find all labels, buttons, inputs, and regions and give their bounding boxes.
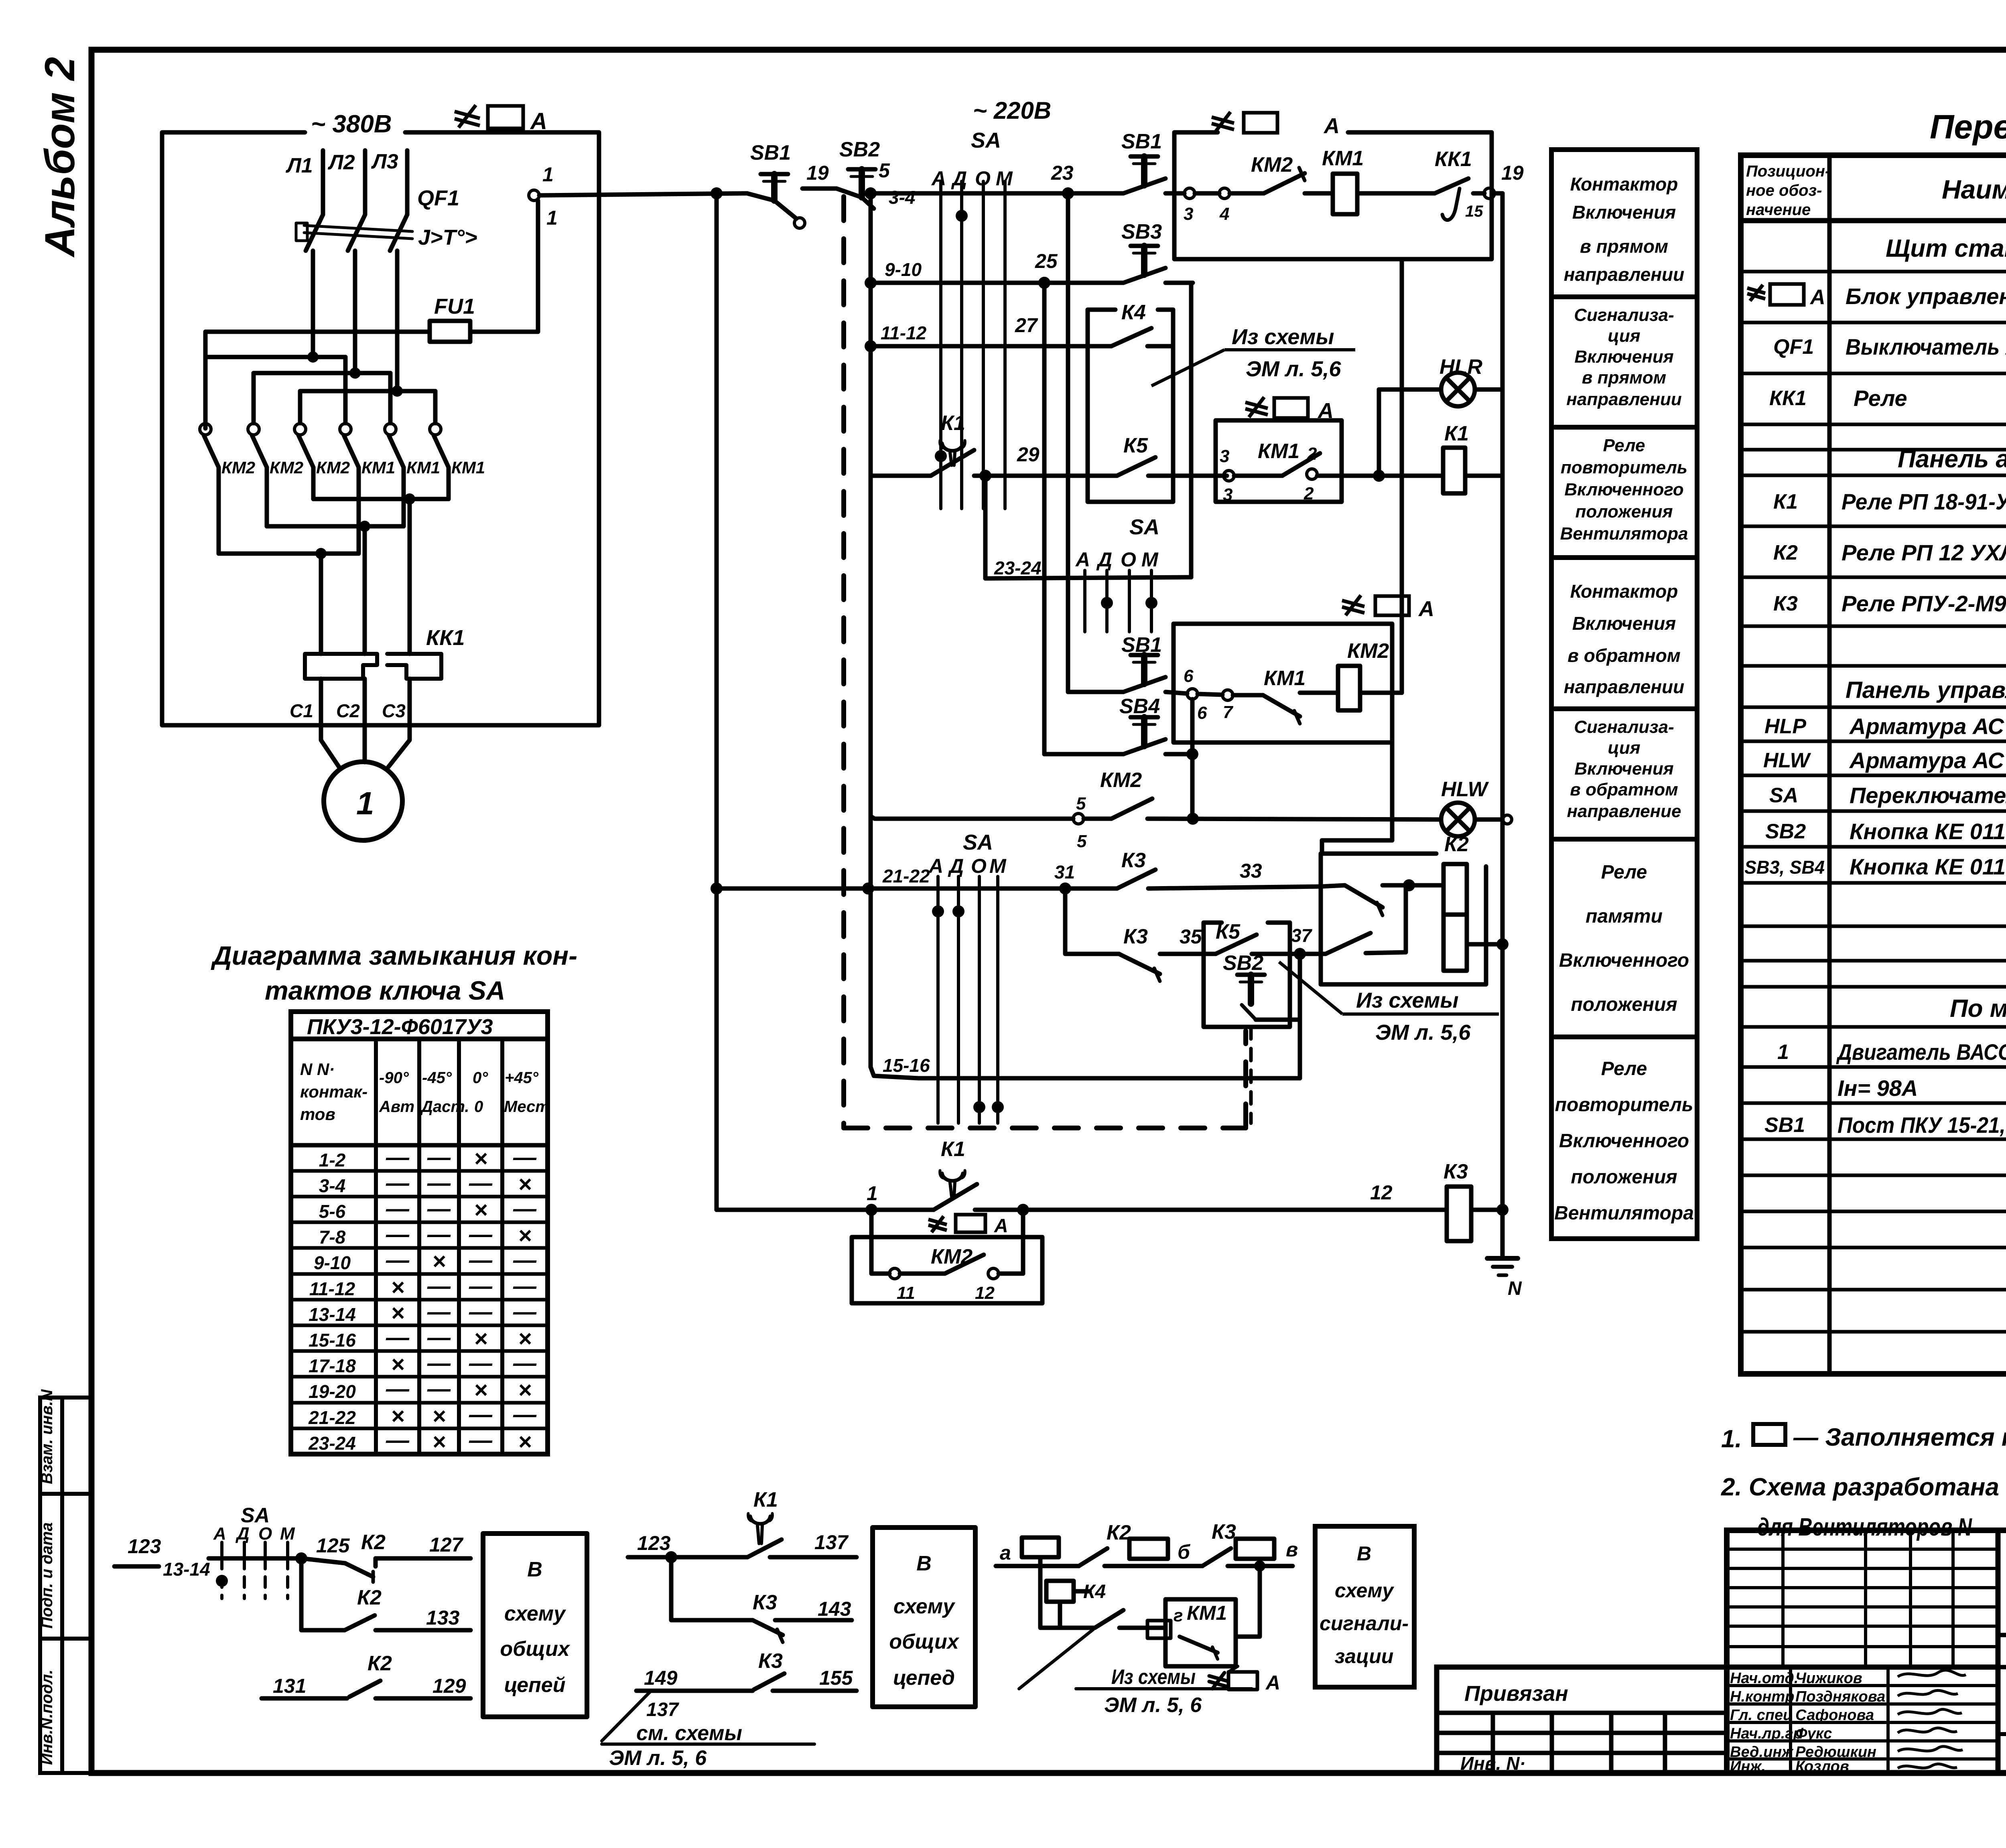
contact K5 (NO row 35) xyxy=(1216,935,1326,954)
svg-text:SВ2: SВ2 xyxy=(1223,951,1263,975)
svg-text:контак-: контак- xyxy=(300,1082,367,1101)
svg-text:К5: К5 xyxy=(1123,434,1148,457)
svg-text:123: 123 xyxy=(637,1532,671,1554)
svg-text:Нач.лр.гр: Нач.лр.гр xyxy=(1730,1725,1803,1742)
svg-text:Кнопка КЕ 011 У3, исп. 4.: Кнопка КЕ 011 У3, исп. 4. xyxy=(1850,854,2006,879)
svg-text:Реле РП 18-91-УХЛ4, И~220В,В.В: Реле РП 18-91-УХЛ4, И~220В,В.В.0,4...1,0… xyxy=(1842,489,2006,514)
svg-text:N N·: N N· xyxy=(300,1060,335,1079)
terminal rect a xyxy=(1022,1538,1059,1557)
svg-text:Инв. N·: Инв. N· xyxy=(1460,1753,1526,1774)
svg-text:QF1: QF1 xyxy=(417,186,459,210)
relay coil KM2 (block2) xyxy=(1338,666,1360,710)
wire phase L2 xyxy=(363,150,367,215)
contactor pole KM2 (2) xyxy=(248,424,267,526)
svg-text:Инж.: Инж. xyxy=(1730,1758,1766,1775)
relay coil K1 xyxy=(1443,448,1465,493)
svg-text:—: — xyxy=(386,1170,410,1196)
text В схему сигнализации xyxy=(1320,1542,1409,1667)
svg-text:Iн= 98А: Iн= 98А xyxy=(1837,1075,1918,1101)
svg-text:27: 27 xyxy=(1015,314,1038,337)
block designation A (frag3) xyxy=(1209,1672,1257,1690)
svg-text:Реле: Реле xyxy=(1601,1058,1647,1079)
signature rows lower part xyxy=(1727,1667,1998,1773)
svg-text:К2: К2 xyxy=(1773,541,1798,564)
svg-text:КМ1: КМ1 xyxy=(406,458,440,477)
svg-text:N: N xyxy=(1508,1278,1522,1299)
contact K1 (NO with fork, frag2) xyxy=(747,1513,782,1557)
svg-text:А: А xyxy=(1317,399,1334,423)
svg-text:Сафонова: Сафонова xyxy=(1795,1707,1874,1724)
svg-text:Гл. спец: Гл. спец xyxy=(1730,1707,1793,1724)
wire row 23-24 xyxy=(985,577,1191,578)
svg-text:В: В xyxy=(916,1552,932,1575)
svg-text:Из схемы: Из схемы xyxy=(1232,325,1334,349)
svg-text:31: 31 xyxy=(1054,862,1075,882)
svg-text:SВ1: SВ1 xyxy=(1764,1114,1805,1137)
svg-text:КМ1: КМ1 xyxy=(1322,147,1364,170)
contact K3 (frag3) xyxy=(1202,1548,1231,1566)
leader Из схемы (frag3) xyxy=(1019,1629,1252,1689)
svg-text:КК1: КК1 xyxy=(426,626,465,650)
svg-text:×: × xyxy=(518,1326,532,1352)
svg-text:Перечень элементов: Перечень элементов xyxy=(1930,108,2006,146)
svg-text:SВ2: SВ2 xyxy=(839,138,880,161)
thermal relay KK1 heaters xyxy=(305,654,441,679)
motor 1 circle xyxy=(324,762,402,840)
svg-text:Панель автоматики: Панель автоматики xyxy=(1898,445,2006,473)
block box KM1 (middle) xyxy=(1216,420,1342,502)
vertical from block1 bottom to row6 coil KM2 xyxy=(1400,259,1404,693)
svg-text:4: 4 xyxy=(1219,204,1229,224)
junction dots rail xyxy=(711,187,1074,199)
wire 123 row xyxy=(114,1558,345,1566)
svg-text:КК1: КК1 xyxy=(1769,387,1807,410)
text В схему общих цепей (2) xyxy=(889,1552,959,1690)
label Iz skhemy EM l.5,6 (upper note) xyxy=(1232,325,1341,381)
svg-text:5-6: 5-6 xyxy=(319,1201,346,1222)
svg-text:Позднякова: Позднякова xyxy=(1795,1688,1885,1705)
wire row 21-22 xyxy=(717,885,1345,889)
svg-text:Вентилятора: Вентилятора xyxy=(1554,1203,1694,1224)
wire drop 31 to K3-35 row xyxy=(1065,889,1119,954)
svg-text:ПКУ3-12-Ф6017У3: ПКУ3-12-Ф6017У3 xyxy=(307,1015,493,1039)
circuit breaker QF1 xyxy=(296,215,412,251)
svg-text:М: М xyxy=(996,167,1013,190)
svg-text:17-18: 17-18 xyxy=(309,1355,356,1376)
svg-text:15: 15 xyxy=(1465,203,1483,220)
svg-text:А: А xyxy=(1075,548,1090,571)
svg-text:повторитель: повторитель xyxy=(1561,458,1687,477)
svg-text:×: × xyxy=(391,1274,404,1300)
svg-text:—: — xyxy=(427,1376,451,1402)
svg-text:33: 33 xyxy=(1240,860,1262,882)
svg-text:Подп. и дата: Подп. и дата xyxy=(38,1522,56,1629)
svg-text:23: 23 xyxy=(1051,162,1074,184)
svg-text:Фукс: Фукс xyxy=(1795,1725,1832,1742)
svg-text:К3: К3 xyxy=(1121,849,1146,872)
contact K3 (NC frag2) xyxy=(753,1620,852,1642)
svg-text:—: — xyxy=(469,1247,493,1273)
wire fuse feed xyxy=(205,201,538,428)
svg-text:3: 3 xyxy=(1220,446,1229,466)
svg-text:19-20: 19-20 xyxy=(309,1381,356,1402)
svg-text:×: × xyxy=(391,1403,404,1429)
leader line см. схемы xyxy=(602,1692,814,1744)
svg-text:-90°: -90° xyxy=(379,1069,409,1087)
svg-text:Л2: Л2 xyxy=(327,151,355,174)
svg-text:SА: SА xyxy=(963,830,993,854)
svg-text:Включенного: Включенного xyxy=(1559,1130,1689,1152)
svg-text:Щит станций управления: Щит станций управления xyxy=(1886,235,2006,262)
svg-text:С2: С2 xyxy=(336,700,360,721)
svg-text:Сигнализа-: Сигнализа- xyxy=(1574,717,1674,737)
block designation A (above block2) xyxy=(1342,595,1409,615)
SA table row lines xyxy=(291,1145,548,1428)
svg-text:11-12: 11-12 xyxy=(881,323,927,343)
function text: Реле памяти включенного положения xyxy=(1559,862,1689,1015)
svg-text:×: × xyxy=(474,1326,487,1352)
wire row 29 (K1 relay row) xyxy=(871,474,1502,478)
SA table type header box xyxy=(291,1012,548,1039)
svg-text:15-16: 15-16 xyxy=(309,1330,356,1351)
svg-text:~ 380В: ~ 380В xyxy=(311,110,392,138)
contactor pole KM1 (3) xyxy=(430,424,449,499)
svg-text:—: — xyxy=(513,1144,537,1170)
svg-text:положения: положения xyxy=(1571,994,1677,1015)
box В схему общих цепей (2) xyxy=(873,1527,975,1707)
svg-text:КМ2: КМ2 xyxy=(1251,153,1293,176)
svg-text:1: 1 xyxy=(542,163,554,186)
function text: Реле повторитель включенного положения вентилятора xyxy=(1554,1058,1694,1224)
SA header: -90 Авт xyxy=(379,1069,414,1116)
labels KM2 KM2 KM2 KM1 KM1 KM1 xyxy=(221,458,485,477)
svg-text:КМ2: КМ2 xyxy=(270,458,303,477)
svg-text:К3: К3 xyxy=(758,1649,783,1673)
svg-text:ЭМ л. 5, 6: ЭМ л. 5, 6 xyxy=(1104,1694,1202,1717)
relay coil K2 (two-winding) xyxy=(1444,864,1467,971)
wire K2 coil to right bus xyxy=(1467,942,1502,947)
svg-text:—: — xyxy=(469,1273,493,1299)
svg-text:направление: направление xyxy=(1567,801,1681,821)
junction dot row29 xyxy=(979,470,991,482)
switch SA group2 columns xyxy=(1085,570,1151,632)
svg-text:129: 129 xyxy=(432,1675,466,1697)
svg-text:С3: С3 xyxy=(382,700,406,721)
svg-text:К4: К4 xyxy=(1083,1581,1106,1603)
switch SA group3 columns xyxy=(938,876,998,1123)
svg-text:Н.контр: Н.контр xyxy=(1730,1688,1794,1705)
svg-text:Реле: Реле xyxy=(1601,862,1647,883)
svg-text:тактов ключа SА: тактов ключа SА xyxy=(265,976,505,1005)
svg-text:×: × xyxy=(432,1403,446,1429)
contact K4 (NO) xyxy=(1111,328,1173,346)
svg-text:12: 12 xyxy=(1370,1181,1393,1204)
block box 2 (reverse contactor) xyxy=(1174,624,1392,742)
svg-text:К1: К1 xyxy=(1773,490,1798,513)
svg-text:23-24: 23-24 xyxy=(308,1433,356,1454)
SA table column lines xyxy=(376,1039,502,1454)
push-button SB2 (NC, on rail) xyxy=(837,169,875,209)
svg-text:—: — xyxy=(386,1247,410,1273)
box around K5/SB2 xyxy=(1204,923,1290,1027)
svg-text:0°: 0° xyxy=(473,1069,488,1087)
svg-text:А: А xyxy=(530,108,547,134)
svg-text:SА: SА xyxy=(1129,515,1159,539)
svg-text:КМ1: КМ1 xyxy=(451,458,485,477)
push-button SB3 (NO) xyxy=(1123,246,1193,283)
svg-text:в прямом: в прямом xyxy=(1580,236,1668,257)
svg-text:×: × xyxy=(432,1248,446,1274)
svg-text:127: 127 xyxy=(429,1534,464,1556)
svg-text:КМ2: КМ2 xyxy=(1347,639,1389,663)
svg-text:общих: общих xyxy=(500,1637,570,1661)
svg-text:-45°: -45° xyxy=(422,1069,452,1087)
wire drop from rect a xyxy=(1040,1557,1095,1628)
svg-text:5: 5 xyxy=(1077,832,1087,851)
svg-text:В: В xyxy=(1357,1542,1371,1565)
svg-text:Привязан: Привязан xyxy=(1464,1682,1568,1706)
svg-text:13-14: 13-14 xyxy=(309,1304,356,1325)
contactor pole KM1 (2) xyxy=(385,424,404,526)
junction dots 9-10 xyxy=(865,277,1050,289)
svg-text:в: в xyxy=(1286,1538,1298,1561)
svg-text:SВ1: SВ1 xyxy=(1121,130,1162,153)
wire phase L3 xyxy=(405,150,410,215)
right part dividers xyxy=(1998,1667,2006,1773)
svg-text:×: × xyxy=(474,1377,487,1403)
wire pole merges xyxy=(219,499,449,654)
svg-text:11-12: 11-12 xyxy=(309,1278,355,1299)
svg-text:а: а xyxy=(1000,1542,1011,1564)
svg-text:Альбом 2: Альбом 2 xyxy=(37,57,83,258)
svg-text:Включения: Включения xyxy=(1574,347,1673,367)
svg-text:—: — xyxy=(386,1196,410,1222)
svg-text:25: 25 xyxy=(1035,250,1058,272)
svg-text:цепей: цепей xyxy=(504,1674,566,1697)
contactor pole KM1 (1) xyxy=(340,424,359,554)
bus SA feed (node 5) xyxy=(869,193,873,1067)
svg-text:×: × xyxy=(474,1146,487,1172)
table header texts xyxy=(1746,162,1830,219)
svg-text:×: × xyxy=(518,1429,532,1455)
svg-text:3-4: 3-4 xyxy=(889,187,915,208)
contact KM2 (NO aux 11-12) xyxy=(889,1255,999,1279)
svg-text:SВ4: SВ4 xyxy=(1119,695,1160,718)
junction node 37 xyxy=(1294,948,1306,960)
svg-text:1: 1 xyxy=(356,785,374,821)
svg-text:схему: схему xyxy=(893,1595,956,1618)
svg-text:×: × xyxy=(518,1223,532,1249)
wire node19 to right bus xyxy=(1494,191,1502,196)
contact K1 (NO with fork, bottom row) xyxy=(934,1170,977,1210)
row: block A designation xyxy=(1747,284,1804,305)
wire phase L1 xyxy=(321,150,325,215)
terminal rect K4 xyxy=(1046,1581,1074,1602)
svg-text:схему: схему xyxy=(1335,1579,1395,1602)
svg-text:ное обоз-: ное обоз- xyxy=(1746,182,1822,199)
contact K3 (NC on row 35) xyxy=(1119,954,1216,981)
svg-text:—: — xyxy=(427,1299,451,1325)
signature table texts xyxy=(1730,1670,1885,1775)
svg-text:НLW: НLW xyxy=(1763,749,1811,772)
svg-text:К3: К3 xyxy=(1123,925,1148,948)
svg-text:начение: начение xyxy=(1746,201,1811,219)
svg-text:123: 123 xyxy=(128,1535,161,1558)
svg-text:А: А xyxy=(928,855,943,877)
svg-text:зации: зации xyxy=(1335,1645,1394,1667)
left small stamp (Привязан) xyxy=(1437,1667,1727,1773)
wire to K2 coil xyxy=(1383,883,1444,888)
node 1 terminal circle xyxy=(529,190,539,201)
terminal rect g xyxy=(1147,1621,1171,1638)
svg-text:0: 0 xyxy=(474,1098,483,1116)
block designation A (above KM1 block) xyxy=(1245,397,1308,418)
wire row a-b-v xyxy=(996,1564,1293,1568)
svg-text:Включения: Включения xyxy=(1572,202,1676,223)
memory relay box around K2 contacts xyxy=(1321,854,1486,984)
svg-text:Двигатель ВАСО 14-16-32У1, И~3: Двигатель ВАСО 14-16-32У1, И~380В,30кВт xyxy=(1836,1039,2006,1065)
lamp HLW xyxy=(1441,803,1475,836)
svg-text:О: О xyxy=(975,167,991,190)
wire main rail 1 (y=482) xyxy=(539,189,1184,195)
main title block outline xyxy=(1727,1530,2006,1773)
function text: Контактор включения в прямом направлении xyxy=(1564,174,1685,285)
svg-text:К2: К2 xyxy=(1444,833,1469,856)
svg-text:Реле: Реле xyxy=(1603,436,1645,455)
text В схему общих цепей (1) xyxy=(500,1558,570,1697)
svg-text:155: 155 xyxy=(819,1667,853,1689)
svg-text:Из схемы: Из схемы xyxy=(1111,1665,1196,1689)
SA table rows xyxy=(308,1150,356,1454)
dashed boundary bus xyxy=(844,197,1246,1128)
svg-text:К2: К2 xyxy=(357,1586,382,1609)
svg-text:—: — xyxy=(386,1144,410,1170)
svg-text:К3: К3 xyxy=(753,1591,777,1614)
svg-text:—: — xyxy=(513,1402,537,1428)
wire drop to 23-24 xyxy=(983,476,988,578)
svg-text:О: О xyxy=(971,855,987,877)
wire drop to K3 NC row (frag2) xyxy=(671,1557,753,1620)
contactor pole KM2 (1) xyxy=(200,424,219,554)
wire K1 output row (bottom) xyxy=(717,1208,1502,1212)
svg-text:ция: ция xyxy=(1608,738,1640,758)
svg-text:—: — xyxy=(386,1427,410,1453)
svg-text:131: 131 xyxy=(273,1675,306,1697)
svg-text:—: — xyxy=(427,1350,451,1376)
svg-text:Диаграмма замыкания кон-: Диаграмма замыкания кон- xyxy=(211,941,577,970)
wire HLR row xyxy=(1379,387,1502,392)
svg-text:—: — xyxy=(427,1325,451,1351)
svg-text:×: × xyxy=(391,1351,404,1377)
svg-text:К2: К2 xyxy=(367,1652,392,1675)
svg-text:1.: 1. xyxy=(1721,1425,1742,1453)
svg-text:—: — xyxy=(469,1170,493,1196)
svg-text:Д: Д xyxy=(948,855,964,877)
svg-text:ЭМ л. 5,6: ЭМ л. 5,6 xyxy=(1246,357,1341,381)
box В схему общих цепей (1) xyxy=(483,1534,587,1717)
contact KK1 (NC thermal) xyxy=(1435,179,1494,220)
svg-text:12: 12 xyxy=(975,1283,995,1303)
function column outline xyxy=(1551,150,1697,1239)
block designation A (top of power box) xyxy=(455,105,523,128)
svg-text:Взам. инв.N: Взам. инв.N xyxy=(38,1389,56,1484)
svg-text:б: б xyxy=(1178,1541,1191,1563)
svg-text:×: × xyxy=(391,1300,404,1326)
wire row 15-16 xyxy=(919,1076,1300,1081)
svg-text:9-10: 9-10 xyxy=(885,259,922,280)
svg-text:SВ1: SВ1 xyxy=(1121,633,1162,657)
contactor pole KM2 (3) xyxy=(294,424,313,499)
element table grid xyxy=(1741,155,2006,1374)
wire row SB4 xyxy=(1044,752,1192,757)
svg-text:НLR: НLR xyxy=(1440,355,1482,379)
block box KM2 (bottom aux) xyxy=(852,1237,1042,1303)
function text: Реле повторитель включенного положения вентилятора xyxy=(1560,436,1688,544)
svg-text:21-22: 21-22 xyxy=(882,866,930,886)
svg-text:Переключатель ПКУ3-12-Ф6017У3: Переключатель ПКУ3-12-Ф6017У3 xyxy=(1850,783,2006,808)
svg-text:О: О xyxy=(1121,548,1136,571)
svg-text:ЭМ л. 5,6: ЭМ л. 5,6 xyxy=(1375,1020,1471,1045)
wire block2 return to memory box xyxy=(1322,742,1392,854)
svg-text:SВ3, SВ4: SВ3, SВ4 xyxy=(1744,857,1825,878)
svg-text:—: — xyxy=(513,1299,537,1325)
svg-text:—: — xyxy=(469,1350,493,1376)
contact K1 (NO with manual fork) xyxy=(931,440,974,476)
function text: Сигнализация включения в прямом направлении xyxy=(1566,305,1682,409)
contact KM1 (NC in block2) xyxy=(1198,690,1338,724)
relay coil KM1 (block1) xyxy=(1333,174,1357,214)
svg-text:Л1: Л1 xyxy=(285,154,313,177)
svg-text:1: 1 xyxy=(546,207,558,229)
terminal rect v xyxy=(1236,1539,1274,1559)
svg-text:Выключатель АЕ 2066-100 У3Б, I: Выключатель АЕ 2066-100 У3Б, Iр= 125А xyxy=(1846,334,2006,359)
svg-text:5: 5 xyxy=(1076,794,1086,813)
svg-text:7: 7 xyxy=(1223,702,1234,722)
svg-text:см. схемы: см. схемы xyxy=(636,1722,742,1745)
wires into KM2 aux box xyxy=(871,1210,1023,1274)
contact K2 (NC) xyxy=(345,1615,471,1630)
SA header: -45 Дист xyxy=(420,1069,469,1116)
svg-text:11: 11 xyxy=(897,1283,915,1303)
push-button SB1 (NC, on rail) xyxy=(747,174,805,228)
svg-text:Л3: Л3 xyxy=(371,150,398,173)
svg-text:Чижиков: Чижиков xyxy=(1795,1670,1862,1687)
svg-text:23-24: 23-24 xyxy=(994,558,1042,578)
svg-text:С1: С1 xyxy=(290,700,313,721)
box В схему сигнализации xyxy=(1315,1526,1414,1687)
contact KM2 (NC, 5-6) xyxy=(1073,799,1152,824)
push-button SB4 (NO) xyxy=(1123,717,1165,754)
svg-text:К5: К5 xyxy=(1216,920,1241,943)
block designation A (KM2 aux) xyxy=(928,1215,985,1232)
svg-text:Козлов: Козлов xyxy=(1795,1758,1849,1775)
wire drop to K2 NC row xyxy=(301,1558,345,1630)
svg-text:Включения: Включения xyxy=(1574,759,1673,779)
block box 1 (forward contactor) xyxy=(1174,132,1492,259)
wire row 11-12 xyxy=(871,344,1111,349)
svg-text:137: 137 xyxy=(814,1531,849,1554)
terminal circle 6 xyxy=(1187,689,1198,699)
contact K3 (NO on 21-22) xyxy=(1117,870,1155,889)
svg-text:К1: К1 xyxy=(941,1138,965,1161)
svg-text:КМ2: КМ2 xyxy=(931,1245,973,1268)
svg-text:—: — xyxy=(469,1299,493,1325)
svg-text:1: 1 xyxy=(1777,1041,1789,1064)
svg-text:К4: К4 xyxy=(1121,301,1146,324)
wire row 131-129 xyxy=(262,1681,471,1698)
svg-text:в прямом: в прямом xyxy=(1582,368,1666,387)
SA header: N N контактов xyxy=(300,1060,367,1124)
